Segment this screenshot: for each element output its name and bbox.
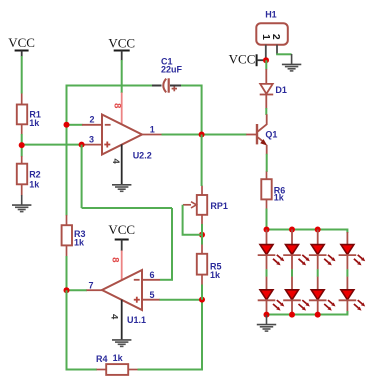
wire node to D1 [265, 60, 267, 69]
LED column 1 anode lead [266, 230, 268, 246]
resistor R4 [96, 353, 138, 375]
LED D col4 bottom [339, 290, 366, 311]
wire LED top rail [267, 230, 348, 234]
ground below LED array [257, 315, 276, 331]
svg-text:U1.1: U1.1 [127, 315, 146, 325]
svg-text:1k: 1k [274, 192, 285, 202]
wire C1 to output node [181, 86, 202, 136]
header H1 [256, 9, 288, 44]
svg-text:5: 5 [149, 290, 154, 300]
pin 1 stub U2.2 [142, 134, 162, 136]
wire R5 to pin5 node [201, 285, 203, 300]
resistor R5 [197, 244, 222, 285]
svg-text:4: 4 [109, 314, 120, 320]
wire R1 to node [21, 134, 23, 145]
LED column 2 anode lead [291, 230, 293, 246]
resistor R3 [62, 215, 86, 257]
wire branch to pin 2 [67, 124, 83, 126]
ground below U2.2 [112, 185, 131, 192]
pin 6 stub U1.1 [142, 279, 160, 281]
LED D col2 top [283, 245, 310, 266]
pin 4 U2.2 [121, 144, 123, 184]
junction R1/R2 [19, 142, 25, 148]
wire to pin 6 [160, 279, 173, 281]
wire R4 to R5 node [138, 300, 203, 370]
svg-text:VCC: VCC [108, 222, 135, 237]
transistor Q1 [257, 114, 277, 154]
svg-text:6: 6 [149, 270, 154, 280]
wire Q1 base lead [246, 134, 256, 136]
junction wiper node [199, 232, 205, 238]
LED column 4 anode lead [346, 232, 348, 245]
wire LED bottom rail [267, 311, 348, 315]
power symbol VCC (left) [8, 35, 35, 57]
wire RP1 bottom to node [201, 224, 203, 235]
LED column 3 anode lead [317, 230, 319, 246]
svg-text:8: 8 [110, 257, 121, 262]
pin 2 stub U2.2 [82, 124, 102, 126]
svg-text:1k: 1k [210, 270, 221, 280]
svg-text:7: 7 [88, 280, 93, 290]
svg-text:4: 4 [110, 158, 121, 164]
LED D col2 bottom [283, 290, 310, 311]
pin 8 U2.2 [121, 93, 123, 126]
resistor R1 [17, 94, 41, 135]
wire pin6 riser [171, 208, 173, 280]
wire col4 middle [346, 255, 348, 269]
LED col4 cathode lead [346, 300, 348, 315]
svg-text:22uF: 22uF [161, 65, 183, 75]
wire R3 to pin7 node [66, 256, 68, 290]
wire pin 5 to R5 node [160, 299, 203, 301]
power symbol VCC (middle) [108, 36, 135, 61]
ground below R2 [12, 195, 31, 212]
resistor R2 [17, 156, 41, 196]
junction bottom rail col3 [315, 312, 321, 318]
svg-text:VCC: VCC [108, 36, 135, 51]
svg-text:VCC: VCC [8, 35, 35, 50]
resistor R6 [261, 172, 285, 210]
pin 4 U1.1 [121, 300, 123, 340]
svg-text:1k: 1k [29, 179, 40, 189]
junction top rail col2 [289, 227, 295, 233]
svg-text:U2.2: U2.2 [133, 151, 152, 161]
LED col2 cathode lead [291, 300, 293, 315]
svg-text:3: 3 [89, 135, 94, 145]
LED col1 cathode lead [266, 300, 268, 315]
wire pin2 net horizontal to C1 [66, 85, 153, 87]
junction output node [199, 132, 205, 138]
pin 1 lead H1 [265, 45, 267, 58]
pin 3 stub U2.2 [82, 144, 102, 146]
junction pin2 branch [64, 122, 70, 128]
svg-text:R2: R2 [29, 169, 41, 179]
LED D col1 top [258, 245, 285, 266]
wire output U2.2 to Q1 base [162, 134, 247, 136]
wire across to pin6 riser [82, 207, 172, 209]
wire R5 to wiper node [201, 235, 203, 245]
junction pin 7 node [64, 287, 70, 293]
wire VCC to R1 [21, 56, 23, 94]
potentiometer RP1 [183, 186, 228, 225]
wire pin7 node to pin 7 [67, 289, 88, 291]
ground below U1.1 [112, 340, 131, 347]
wire node to RP1 top [201, 135, 203, 187]
power symbol VCC (U1.1) [108, 222, 135, 251]
wire pin7 node down to bottom [67, 290, 98, 369]
LED D col1 bottom [258, 290, 285, 311]
svg-text:1k: 1k [74, 238, 85, 248]
LED D col4 top [339, 245, 366, 266]
wire R6 to LED top rail [266, 209, 268, 230]
LED col3 cathode lead [317, 300, 319, 315]
op-amp U2.2 [102, 115, 152, 161]
wire VCC to pin 8 of U2.2 [121, 60, 123, 93]
wire Q1 emitter to R6 [266, 154, 268, 172]
svg-text:D1: D1 [275, 85, 287, 95]
svg-text:1k: 1k [29, 118, 40, 128]
wire pin2 net vertical [66, 86, 68, 216]
junction pin 3 [79, 142, 85, 148]
wire D1 to Q1 collector [265, 108, 267, 115]
junction bottom rail col1 [264, 312, 270, 318]
svg-text:1k: 1k [113, 353, 124, 363]
junction VCC / H1 / D1 [263, 57, 269, 63]
wire pin3 node down [81, 145, 83, 208]
svg-text:RP1: RP1 [210, 201, 228, 211]
wire pin2 H1 to ground [276, 53, 291, 55]
pin 7 stub U1.1 [87, 289, 103, 291]
svg-text:H1: H1 [265, 9, 277, 19]
wire col3 middle [317, 255, 319, 269]
wire wiper to bottom [183, 205, 202, 235]
pin 5 stub U1.1 [142, 299, 160, 301]
wire col2 middle [291, 255, 293, 269]
pin 2 lead H1 [276, 45, 278, 55]
ground right of H1 [282, 54, 301, 71]
wire node to R5 [201, 235, 203, 245]
junction top rail col3 [315, 227, 321, 233]
junction top rail col1 [264, 227, 270, 233]
wire col1 middle [266, 255, 268, 269]
power symbol VCC (right, rotated) [229, 51, 264, 66]
capacitor C1 [152, 56, 183, 92]
svg-text:2: 2 [89, 115, 94, 125]
svg-text:8: 8 [112, 103, 123, 108]
svg-text:2: 2 [270, 34, 282, 40]
svg-text:1: 1 [150, 125, 155, 135]
junction bottom rail col2 [289, 312, 295, 318]
svg-text:VCC: VCC [229, 51, 256, 66]
op-amp U1.1 [102, 270, 146, 325]
pin 8 U1.1 [121, 251, 123, 281]
diode D1 [260, 69, 287, 109]
wire node to R2 [21, 145, 23, 156]
LED D col3 bottom [309, 290, 336, 311]
svg-text:R4: R4 [96, 354, 108, 364]
LED D col3 top [309, 245, 336, 266]
junction pin 5 / R5 [199, 297, 205, 303]
wire node to pin3 [22, 144, 82, 146]
svg-text:Q1: Q1 [265, 129, 277, 139]
